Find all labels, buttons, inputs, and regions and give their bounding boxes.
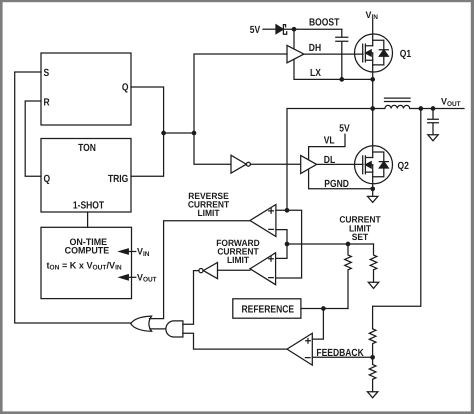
wire reverse + input tie <box>276 210 302 278</box>
svg-text:tON = K x VOUT/VIN: tON = K x VOUT/VIN <box>47 259 122 271</box>
node dot Q-T <box>161 131 166 136</box>
svg-text:DL: DL <box>324 155 336 166</box>
svg-text:COMPUTE: COMPUTE <box>65 244 110 255</box>
wire AND output to OR input <box>150 328 166 330</box>
wire node Q branch <box>164 132 194 134</box>
node dot VOUT cap <box>431 106 436 111</box>
node dot boost <box>292 27 297 32</box>
inverter I1 <box>231 155 246 173</box>
wire TON to compute stub <box>87 212 89 227</box>
svg-text:Q2: Q2 <box>398 161 410 172</box>
svg-text:S: S <box>44 68 50 79</box>
node dot LX Q1 source <box>370 77 375 82</box>
arrow VIN into compute box <box>128 251 136 253</box>
wire DL output to Q2 gate <box>317 163 363 165</box>
on-time compute U3 box <box>41 227 132 298</box>
node dot Q-T2 <box>192 131 197 136</box>
svg-text:VIN: VIN <box>366 9 378 21</box>
wire boost to DH buffer <box>293 29 295 49</box>
svg-text:1-SHOT: 1-SHOT <box>73 200 105 211</box>
diode D1 schottky <box>276 25 283 34</box>
svg-text:DH: DH <box>309 43 321 54</box>
node dot threshold <box>285 242 290 247</box>
svg-text:Q1: Q1 <box>400 49 412 60</box>
wire S input net <box>15 72 131 323</box>
wire BOOST net <box>283 28 341 30</box>
svg-text:Q: Q <box>44 174 51 185</box>
resistor R2 <box>370 244 377 282</box>
wire feedback - to divider tap <box>312 356 372 358</box>
wire reverse - input to threshold <box>276 230 287 259</box>
wire reference output <box>301 308 348 310</box>
wire Q1 source through LX to inductor node <box>372 53 374 109</box>
capacitor C1 boost <box>336 29 348 79</box>
transistor Q2 <box>355 146 393 184</box>
wire AND bottom input from feedback <box>183 333 287 349</box>
buffer DH <box>287 45 304 62</box>
svg-text:TON: TON <box>78 143 96 154</box>
svg-text:SET: SET <box>352 232 369 242</box>
svg-text:5V: 5V <box>250 25 260 36</box>
svg-text:FEEDBACK: FEEDBACK <box>316 348 364 359</box>
node dot reference tap <box>321 306 326 311</box>
node dot boost cap LX <box>339 77 344 82</box>
resistor R3 <box>369 329 376 358</box>
svg-text:LIMIT: LIMIT <box>197 208 219 218</box>
wire VIN to Q1 drain <box>372 20 374 46</box>
wire 5V to diode <box>263 28 276 30</box>
ground R2 <box>368 282 378 288</box>
wire VOUT to feedback divider <box>373 109 421 329</box>
svg-text:REFERENCE: REFERENCE <box>242 305 295 316</box>
capacitor C2 output <box>428 109 439 135</box>
svg-text:VIN: VIN <box>137 246 149 258</box>
and gate G2 <box>166 321 183 337</box>
inductor L1 <box>373 105 421 108</box>
node dot PGND <box>370 186 375 191</box>
wire forward output to inverter I2 <box>218 269 251 271</box>
wire PGND to Q2 source <box>309 169 373 189</box>
wire inverter I2 to AND input <box>183 271 199 325</box>
transistor Q1 <box>355 34 393 72</box>
svg-text:BOOST: BOOST <box>309 17 340 28</box>
wire VOUT rail <box>421 108 464 110</box>
wire Q output to TRIG <box>131 87 164 176</box>
wire current limit set node <box>287 243 374 245</box>
svg-text:VOUT: VOUT <box>441 96 461 108</box>
wire Q net vertical to DH and DL <box>194 54 287 164</box>
SR latch U1 box <box>41 53 131 125</box>
wire inverter I1 to DL buffer <box>250 163 300 165</box>
svg-text:TRIG: TRIG <box>108 174 128 185</box>
wire reverse output to OR input <box>150 221 251 319</box>
wire LX net <box>294 59 373 79</box>
svg-text:PGND: PGND <box>324 179 349 190</box>
wire VL supply <box>309 134 345 160</box>
ground R4 <box>367 392 377 398</box>
comparator A1 reverse current limit <box>250 205 276 237</box>
or gate G1 <box>131 316 152 331</box>
wire Q2 drain <box>372 109 374 158</box>
wire LX current sense to comparators <box>287 109 373 211</box>
node dot LX sense <box>285 208 290 213</box>
svg-text:Q: Q <box>122 83 129 94</box>
svg-text:VL: VL <box>324 136 335 147</box>
comparator A2 forward current limit <box>250 253 276 285</box>
wire R input net <box>25 101 41 176</box>
resistor R1 <box>345 244 352 309</box>
inductor core bars <box>385 98 411 101</box>
wire Q2 source to PGND <box>372 165 374 189</box>
TON 1-shot U2 box <box>41 139 131 213</box>
comparator A3 feedback <box>287 333 312 365</box>
ground output cap <box>428 135 438 141</box>
svg-text:LIMIT: LIMIT <box>227 255 249 265</box>
svg-text:R: R <box>44 98 51 109</box>
buffer DL <box>301 156 317 174</box>
node dot CLS R1 <box>346 242 351 247</box>
resistor R4 <box>369 357 376 391</box>
svg-text:LX: LX <box>310 68 321 79</box>
wire feedback + to reference <box>312 309 323 340</box>
wire DH output to Q1 gate <box>304 53 363 55</box>
ground PGND symbol <box>372 189 374 197</box>
svg-text:VOUT: VOUT <box>137 272 157 284</box>
arrow VOUT into compute box <box>128 276 136 278</box>
reference U4 box <box>233 299 301 318</box>
node dot LX inductor <box>370 106 375 111</box>
svg-text:5V: 5V <box>339 124 349 135</box>
inverter I2 <box>203 263 217 279</box>
node dot divider tap <box>370 355 375 360</box>
node dot VOUT branch <box>418 106 423 111</box>
